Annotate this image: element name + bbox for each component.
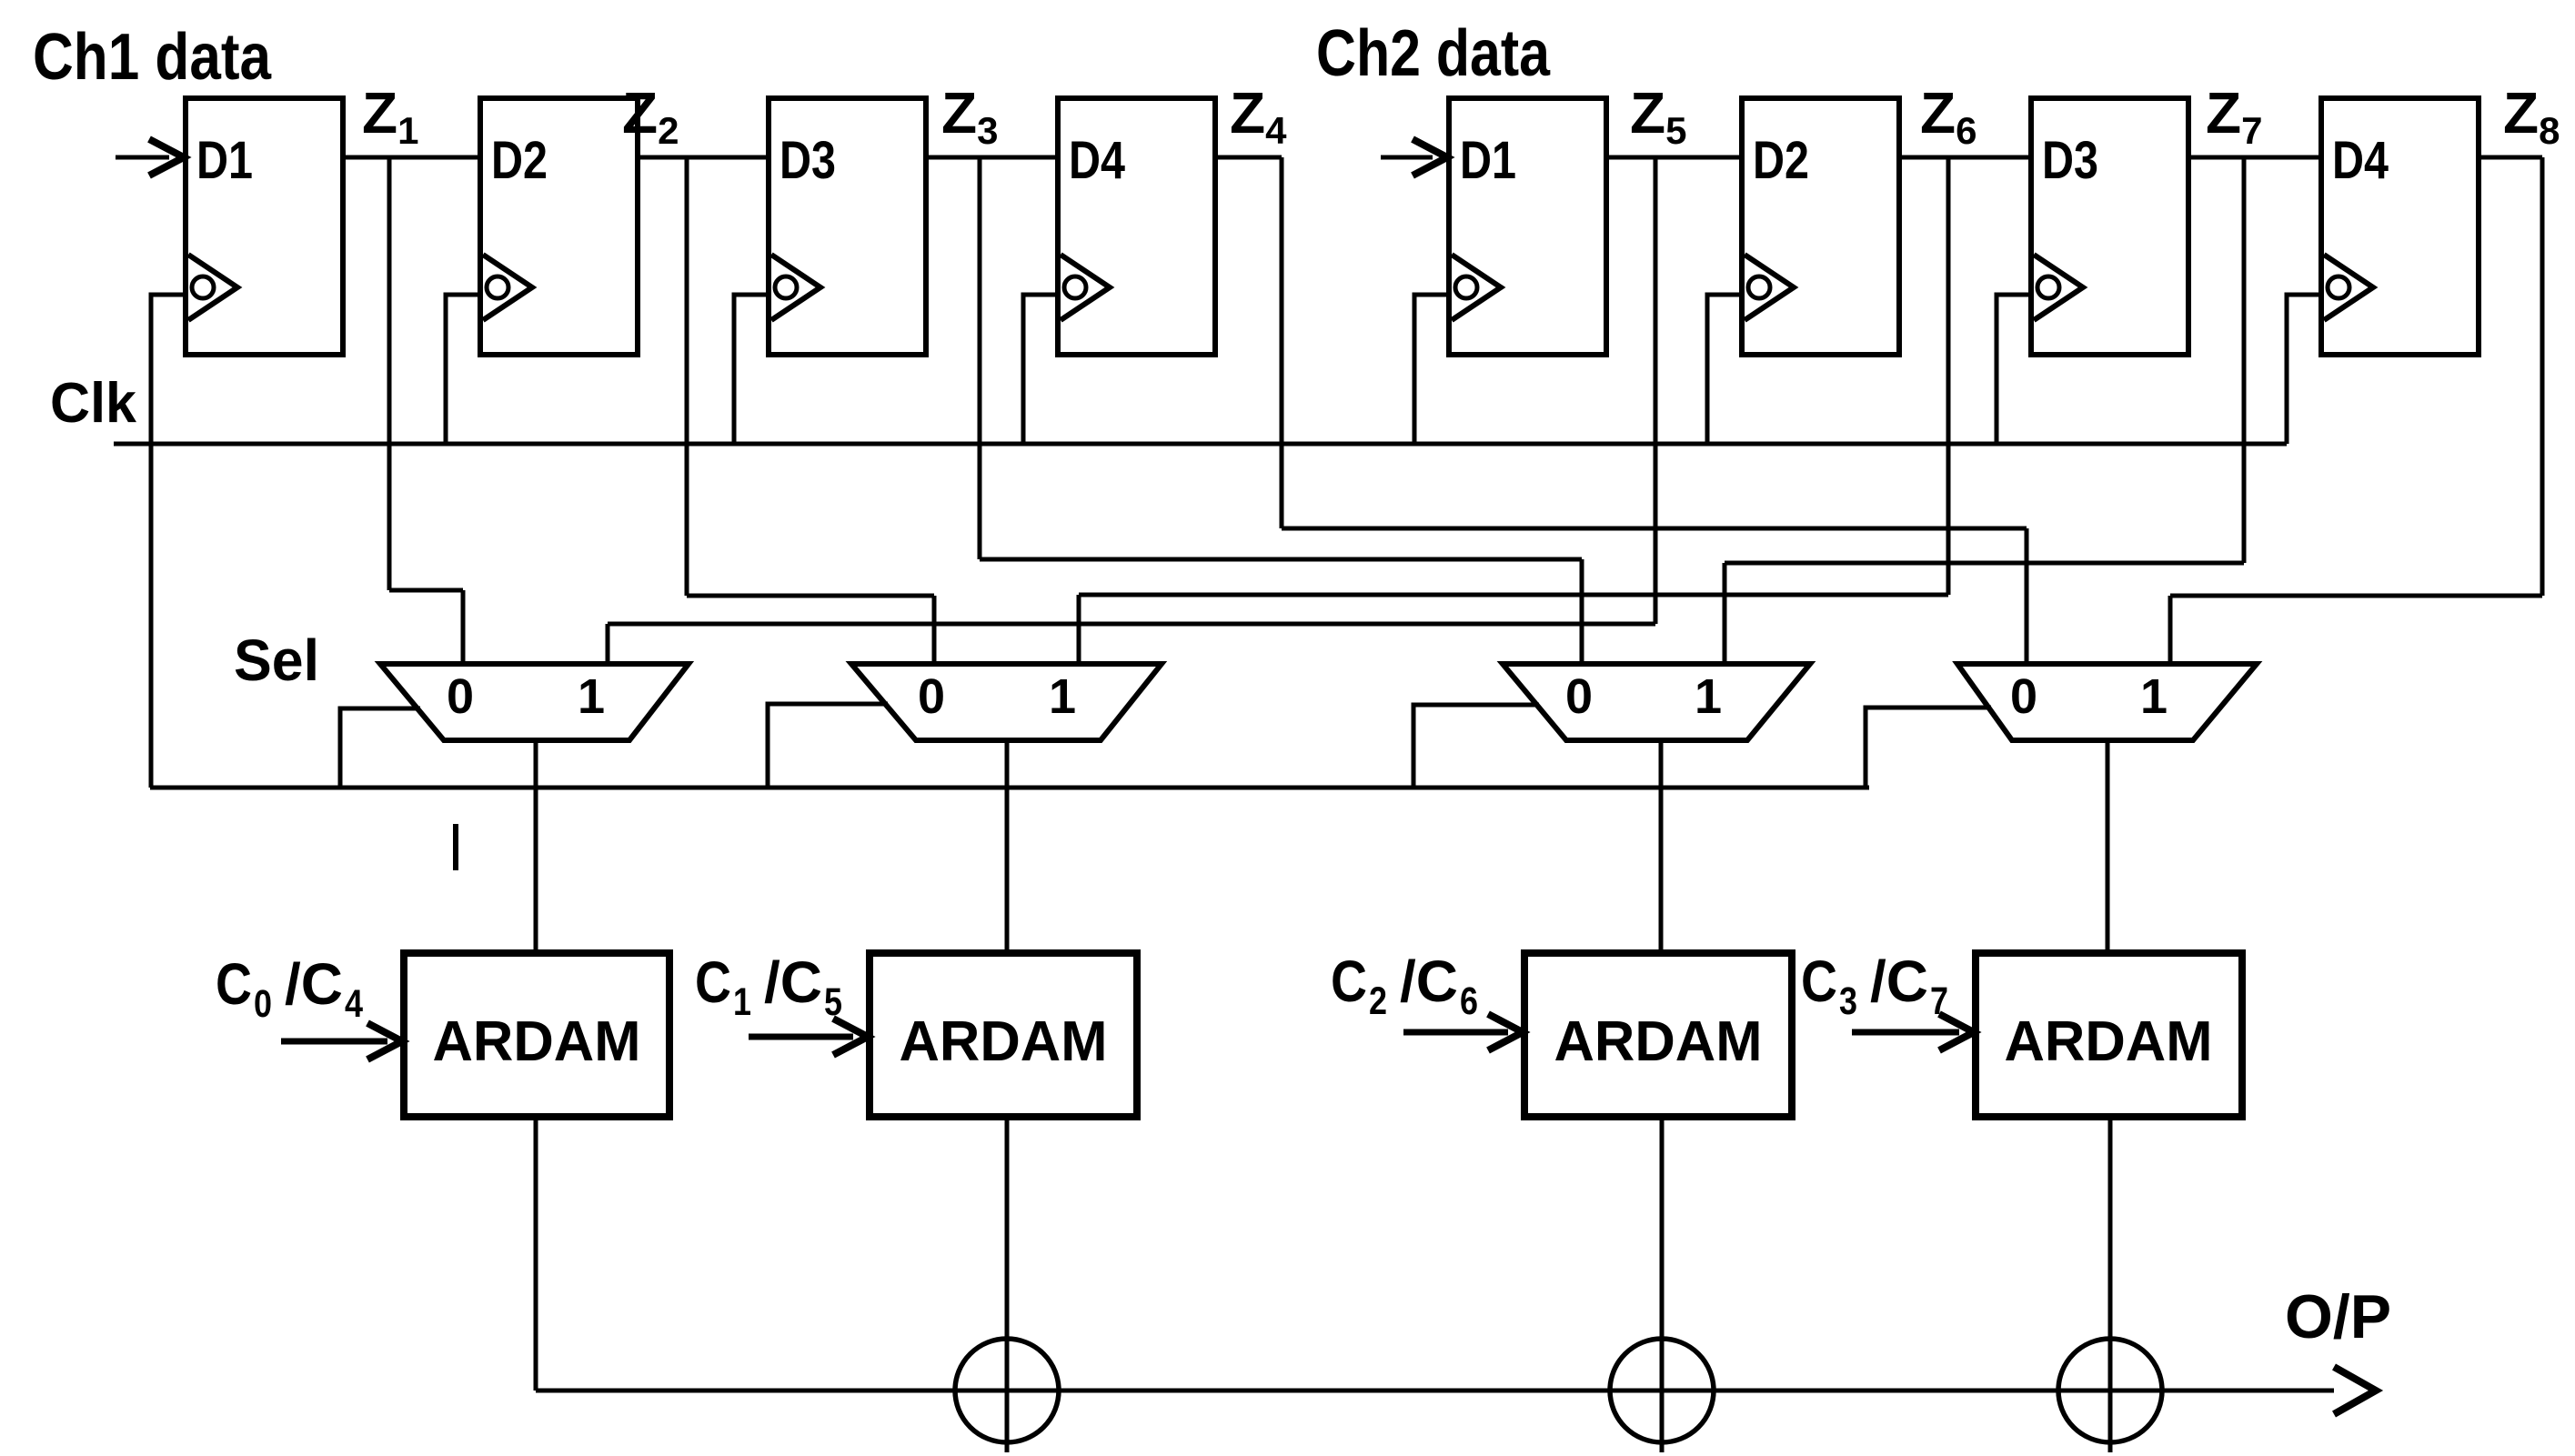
value label C2 /C6 for ARDAM A3 [1331,949,1478,1023]
wire Ch2 data input arrow into FF5 [1381,139,1447,176]
svg-text:Z4: Z4 [1230,80,1287,152]
svg-text:ARDAM: ARDAM [2005,1010,2213,1073]
svg-text:3: 3 [1839,979,1857,1023]
svg-text:/C: /C [285,951,343,1017]
node O/P output label [2285,1282,2391,1351]
svg-text:Z7: Z7 [2206,80,2262,152]
flip-flop FF5 (D1) [1449,98,1606,355]
svg-text:D2: D2 [1753,131,1809,190]
node Z8 label [2503,80,2560,152]
wire Z5 output net from FF5 to mux U9 input 1 [608,157,1742,664]
svg-text:Z3: Z3 [941,80,998,152]
svg-text:C: C [216,951,252,1017]
svg-text:0: 0 [254,982,272,1026]
node I label tick on mux U9 output [453,824,458,870]
svg-text:ARDAM: ARDAM [900,1010,1108,1073]
node Z2 label [622,80,679,152]
wire Clk distribution line [114,442,2287,447]
wire coefficient input arrow into ARDAM A1 [281,1023,402,1059]
wire Z1 output net from FF1 to mux U9 input 0 [343,157,480,664]
wire coefficient input arrow into ARDAM A2 [749,1019,868,1055]
svg-text:1: 1 [2140,669,2168,724]
svg-text:O/P: O/P [2285,1282,2391,1351]
node Z7 label [2206,80,2262,152]
svg-text:C: C [1801,949,1837,1014]
svg-text:D3: D3 [2042,131,2098,190]
svg-text:Z8: Z8 [2503,80,2560,152]
wire mux U10 output to ARDAM A2 [1005,740,1010,953]
svg-text:1: 1 [1695,669,1722,724]
wire Sel stub to mux U11 select input [1413,705,1539,788]
wire ARDAM A3 output into XOR X2 [1660,1117,1665,1452]
value label C0 /C4 for ARDAM A1 [216,951,363,1026]
node Z3 label [941,80,998,152]
wire Z4 output net from FF4 to mux U12 input 0 [1215,157,2027,664]
flip-flop FF8 (D4) [2321,98,2479,355]
block ARDAM A4 [1976,953,2242,1117]
wire mux U12 output to ARDAM A4 [2106,740,2110,953]
wire Z6 output net from FF6 to mux U10 input 1 [1079,157,2031,664]
node Z1 label [362,80,418,152]
flip-flop FF2 (D2) [480,98,638,355]
svg-text:6: 6 [1460,979,1478,1023]
node Sel label [234,628,319,693]
node Z6 label [1920,80,1977,152]
svg-text:Sel: Sel [234,628,319,693]
flip-flop FF4 (D4) [1058,98,1215,355]
svg-text:D1: D1 [196,131,253,190]
svg-text:Ch2 data: Ch2 data [1316,17,1551,90]
wire clock stub FF1 [151,295,186,788]
wire coefficient input arrow into ARDAM A3 [1403,1014,1523,1050]
wire output bus line to O/P [536,1367,2376,1414]
wire clock stub FF2 [446,295,480,444]
op-amp style 2:1 mux U10 (trapezoid) [851,664,1162,740]
node Clk label [50,372,137,435]
svg-text:D3: D3 [780,131,836,190]
svg-text:D1: D1 [1460,131,1516,190]
wire Sel stub to mux U10 select input [768,704,888,788]
wire clock stub FF4 [1023,295,1058,444]
wire clock stub FF8 [2287,295,2321,444]
wire clock stub FF3 [734,295,769,444]
flip-flop FF7 (D3) [2031,98,2188,355]
svg-text:D2: D2 [491,131,548,190]
wire ARDAM A2 output into XOR X1 [1005,1117,1010,1452]
wire mux U11 output to ARDAM A3 [1659,740,1664,953]
wire Ch1 data input arrow into FF1 [116,139,184,176]
node Z4 label [1230,80,1287,152]
svg-text:Z1: Z1 [362,80,418,152]
wire Z2 output net from FF2 to mux U10 input 0 [638,157,934,664]
svg-text:Ch1 data: Ch1 data [33,21,272,94]
svg-text:4: 4 [345,982,363,1026]
svg-text:/C: /C [1400,949,1458,1014]
svg-text:D4: D4 [1069,131,1125,190]
wire clock stub FF6 [1707,295,1742,444]
svg-text:Z2: Z2 [622,80,679,152]
svg-text:Z6: Z6 [1920,80,1977,152]
op-amp style 2:1 mux U11 (trapezoid) [1503,664,1810,740]
wire ARDAM A1 output down to output bus [534,1117,538,1391]
svg-text:ARDAM: ARDAM [1554,1010,1763,1073]
XOR gate X2 (circled plus) [1610,1339,1714,1442]
wire Z7 output net from FF7 to mux U11 input 1 [1725,157,2321,664]
svg-text:Clk: Clk [50,372,137,435]
wire Sel stub to mux U12 select input [1866,708,1991,788]
svg-text:0: 0 [2010,669,2037,724]
svg-text:Z5: Z5 [1630,80,1686,152]
svg-text:1: 1 [733,980,751,1024]
block ARDAM A2 [870,953,1137,1117]
svg-text:ARDAM: ARDAM [433,1010,641,1073]
wire Z8 output net from FF8 to mux U12 input 1 [2170,157,2542,664]
svg-text:1: 1 [578,669,605,724]
wire mux U9 output to ARDAM A1 [534,740,538,953]
svg-text:2: 2 [1369,979,1387,1023]
wire Sel distribution line [150,786,1869,790]
value label C3 /C7 for ARDAM A4 [1801,949,1948,1023]
flip-flop FF3 (D3) [769,98,926,355]
svg-text:C: C [695,949,731,1015]
XOR gate X3 (circled plus) [2058,1339,2162,1442]
node Ch1 data input label [33,21,272,94]
wire ARDAM A4 output into XOR X3 [2108,1117,2113,1452]
node Z5 label [1630,80,1686,152]
svg-text:1: 1 [1049,669,1076,724]
svg-text:0: 0 [918,669,945,724]
XOR gate X1 (circled plus) [955,1339,1059,1442]
wire Sel stub to mux U9 select input [340,708,420,788]
flip-flop FF1 (D1) [186,98,343,355]
svg-text:C: C [1331,949,1367,1014]
block ARDAM A1 [404,953,669,1117]
svg-text:D4: D4 [2332,131,2389,190]
wire clock stub FF5 [1414,295,1449,444]
wire Z3 output net from FF3 to mux U11 input 0 [926,157,1582,664]
block ARDAM A3 [1524,953,1792,1117]
flip-flop FF6 (D2) [1742,98,1899,355]
wire clock stub FF7 [1997,295,2031,444]
svg-text:/C: /C [1870,949,1928,1014]
svg-text:0: 0 [447,669,474,724]
svg-text:0: 0 [1565,669,1593,724]
svg-text:5: 5 [824,980,842,1024]
value label C1 /C5 for ARDAM A2 [695,949,842,1024]
wire coefficient input arrow into ARDAM A4 [1852,1014,1974,1050]
node Ch2 data input label [1316,17,1551,90]
op-amp style 2:1 mux U12 (trapezoid) [1957,664,2257,740]
op-amp style 2:1 mux U9 (trapezoid) [380,664,689,740]
svg-text:/C: /C [764,949,822,1015]
